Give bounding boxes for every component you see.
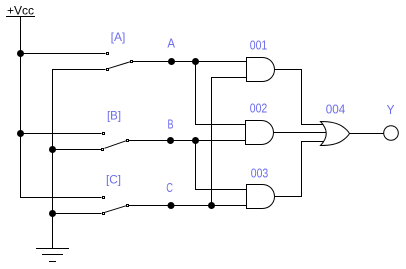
- wire node B to gate 002 bottom input: [129, 140, 246, 142]
- svg-text:003: 003: [251, 166, 269, 181]
- wire A down to gate 002 top input: [196, 62, 246, 125]
- wire node C to gate 003 bottom input: [129, 205, 247, 207]
- junction dot bus/B bottom: [49, 146, 56, 153]
- OR gate 004: [321, 122, 350, 146]
- wire 003 output to OR bottom input: [275, 142, 324, 197]
- switch C: [102, 196, 129, 215]
- wire Vcc to switch A top contact: [21, 53, 106, 55]
- node C dot 1: [168, 202, 175, 209]
- svg-text:Y: Y: [387, 102, 395, 117]
- node A dot 2: [192, 58, 199, 65]
- switch A: [106, 52, 133, 71]
- AND gate 002: [246, 121, 274, 145]
- wire Vcc bus vertical: [21, 17, 102, 198]
- wire B down to gate 003 top input: [196, 141, 247, 190]
- AND gate 003: [247, 185, 275, 209]
- svg-text:+Vcc: +Vcc: [7, 4, 34, 18]
- svg-text:B: B: [168, 117, 174, 132]
- svg-text:004: 004: [326, 102, 346, 117]
- node B dot 1: [167, 137, 174, 144]
- node A dot 1: [168, 58, 175, 65]
- junction dot bus/C bottom: [49, 210, 56, 217]
- svg-text:A: A: [167, 36, 175, 51]
- ground: [36, 249, 69, 262]
- junction dot Vcc/B: [17, 130, 24, 137]
- wire 002 output to OR middle input: [274, 132, 327, 134]
- wire Vcc to switch B top contact: [21, 133, 102, 135]
- wire C up to gate 001 bottom input: [212, 78, 247, 206]
- wire 001 output to OR top input: [275, 70, 324, 125]
- node B dot 2: [192, 137, 199, 144]
- svg-text:001: 001: [250, 38, 268, 53]
- wire node A to gate 001 top input: [133, 61, 247, 63]
- svg-text:[B]: [B]: [107, 109, 121, 123]
- terminal Y circle: [384, 126, 399, 141]
- wire OR output to terminal Y: [350, 133, 384, 135]
- svg-text:C: C: [166, 180, 173, 195]
- +Vcc underline: [6, 16, 35, 18]
- AND gate 001: [247, 58, 275, 82]
- wire ground bus: switch A bottom contact down to ground: [53, 70, 106, 249]
- switch B: [101, 132, 129, 151]
- svg-text:[C]: [C]: [106, 173, 121, 187]
- junction dot Vcc/A: [17, 50, 24, 57]
- wire ground bus to switch B bottom contact: [53, 149, 102, 151]
- svg-text:002: 002: [250, 101, 268, 116]
- node C dot 2: [208, 202, 215, 209]
- svg-text:[A]: [A]: [111, 30, 126, 44]
- wire ground bus to switch C bottom contact: [53, 213, 102, 215]
